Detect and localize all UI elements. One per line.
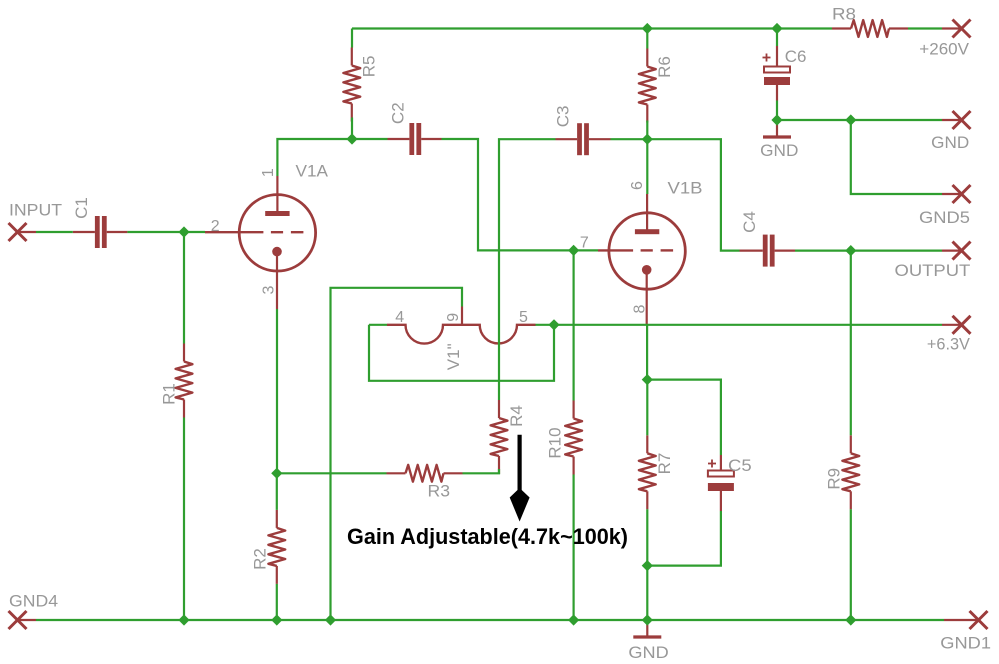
wire C6 bottom to GND node (776, 101, 778, 121)
port GND1 (970, 611, 988, 629)
svg-text:+6.3V: +6.3V (927, 334, 971, 353)
junction node C6/GND (771, 114, 782, 125)
resistor R3 (387, 465, 463, 482)
svg-text:GND4: GND4 (9, 591, 58, 610)
wire C5 bottom to R7 bottom node (647, 511, 721, 566)
capacitor C1 (95, 216, 107, 248)
junction node GND/GND5 (845, 114, 856, 125)
junction node top bus R6 (642, 23, 653, 34)
wire C2 to V1B grid node (442, 139, 574, 250)
capacitor C2 (409, 123, 421, 155)
wire R7 node over to C5 (647, 380, 721, 455)
svg-text:R3: R3 (428, 482, 451, 501)
port GND4 (9, 611, 27, 629)
svg-text:V1B: V1B (668, 179, 703, 198)
capacitor C4 (763, 235, 775, 267)
capacitor C6 (764, 46, 790, 101)
svg-text:R8: R8 (832, 5, 856, 24)
resistor R5 (343, 48, 360, 122)
svg-text:8: 8 (632, 304, 649, 313)
svg-text:GND: GND (931, 133, 969, 152)
svg-text:INPUT: INPUT (9, 200, 62, 219)
wire C3 right to anode node (611, 138, 648, 140)
svg-text:R9: R9 (825, 468, 844, 490)
svg-text:R1: R1 (160, 383, 179, 405)
wire GND node down to GND5 (851, 120, 942, 194)
wire pin 8 down to R7 node (646, 324, 648, 380)
wire C3 left down to R4 (499, 139, 556, 400)
port +260V (953, 20, 971, 38)
junction node bus R1 (178, 614, 189, 625)
junction node bus heater (325, 614, 336, 625)
wire +260V after R8 (908, 27, 942, 29)
wire R9 to bottom bus (850, 509, 852, 620)
port INPUT (9, 223, 27, 241)
wire anode node to C4 (647, 139, 739, 250)
capacitor C5 plus sign (708, 460, 716, 468)
junction node R7/C5 bottom (642, 560, 653, 571)
svg-text:R4: R4 (507, 405, 526, 427)
wire grid node down to R10 (572, 250, 574, 400)
wire R5 bottom to node (351, 118, 353, 140)
svg-text:6: 6 (629, 181, 646, 190)
svg-text:GND: GND (760, 141, 798, 160)
svg-text:V1": V1" (444, 343, 463, 370)
resistor R2 (268, 510, 285, 584)
wire OUTPUT node down to R9 (850, 251, 852, 436)
svg-text:C3: C3 (554, 106, 573, 128)
svg-text:R2: R2 (251, 548, 270, 570)
triode V1A (205, 176, 316, 309)
wire heater pin 4 link (369, 324, 387, 326)
svg-text:1: 1 (260, 168, 277, 177)
wire V1A cathode down (276, 309, 278, 473)
svg-text:GND5: GND5 (919, 208, 970, 227)
svg-text:Gain Adjustable(4.7k~100k): Gain Adjustable(4.7k~100k) (347, 524, 628, 549)
svg-text:2: 2 (211, 218, 220, 235)
svg-text:C2: C2 (389, 102, 408, 124)
svg-text:R7: R7 (655, 453, 674, 475)
wire bottom ground bus (36, 619, 944, 621)
wire heater return loop (369, 325, 554, 381)
svg-text:GND1: GND1 (940, 634, 991, 653)
wire cathode node to R2 (276, 473, 278, 510)
junction node bus R7/GND (642, 614, 653, 625)
wire R6 top link (646, 29, 648, 49)
resistor R8 (832, 20, 908, 37)
svg-text:GND: GND (628, 643, 668, 662)
resistor R9 (842, 435, 859, 509)
svg-text:7: 7 (580, 234, 589, 251)
junction node grid V1B/R10 (568, 245, 579, 256)
wire V1A anode to R5/C2 node (277, 139, 387, 176)
wire R3 to cathode node (277, 472, 387, 474)
svg-text:C4: C4 (740, 211, 759, 233)
junction node R6/C3/anode V1B (642, 134, 653, 145)
resistor R6 (639, 49, 656, 123)
ground symbol under C6 (763, 120, 791, 137)
capacitor C3 (577, 123, 589, 155)
wire R6 bottom to anode node (646, 121, 648, 140)
junction node OUTPUT/R9 (845, 245, 856, 256)
wire heater pin 5 link (536, 324, 555, 326)
resistor R4 (491, 400, 508, 474)
capacitor C5 (708, 455, 734, 511)
svg-text:OUTPUT: OUTPUT (895, 261, 971, 280)
wire C6 top link (776, 29, 778, 47)
annotation arrow (517, 435, 521, 496)
resistor R10 (565, 401, 582, 475)
svg-text:R6: R6 (655, 56, 674, 78)
svg-text:R5: R5 (360, 56, 379, 78)
ground symbol on bottom bus (633, 620, 661, 637)
wire R7 to bottom bus (646, 509, 648, 620)
svg-text:4: 4 (395, 309, 404, 326)
wire anode node to pin 6 (646, 139, 648, 194)
wire R1 to bottom bus (183, 418, 185, 621)
wire grid node to pin 7 (574, 249, 598, 251)
resistor R7 (639, 435, 656, 509)
wire R2 to bottom bus (276, 584, 278, 620)
junction node heater/+6.3V (548, 319, 559, 330)
port GND (953, 111, 971, 129)
resistor R1 (176, 344, 193, 418)
junction node input/R1 (178, 226, 189, 237)
wire +260V top bus (352, 27, 832, 29)
wire R10 to bottom bus (572, 475, 574, 621)
triode V1B (598, 194, 685, 324)
wire C1 to V1A grid (127, 231, 205, 233)
wire R4 bottom to R3 (463, 469, 500, 473)
junction node R5/C2/anode (346, 133, 357, 144)
wire GND node to GND port (777, 119, 942, 121)
port OUTPUT (953, 242, 971, 260)
svg-text:C6: C6 (785, 47, 807, 66)
wire heater node to +6.3V port (554, 324, 942, 326)
port GND5 (953, 185, 971, 203)
svg-text:5: 5 (519, 309, 528, 326)
junction node bus R9 (845, 614, 856, 625)
wire R7 node to R7 (646, 380, 648, 436)
heater V1" bumps (387, 307, 536, 344)
wire pin 9 to left rail (331, 288, 463, 620)
capacitor C6 plus sign (763, 54, 771, 62)
wire C4 to OUTPUT (795, 250, 942, 252)
svg-text:V1A: V1A (296, 162, 329, 181)
junction node bus R2 (271, 614, 282, 625)
junction node top bus C6 (771, 23, 782, 34)
wire INPUT to C1 (36, 231, 73, 233)
junction node pin8/R7/C5 (642, 374, 653, 385)
svg-text:+260V: +260V (919, 39, 969, 58)
wire R5 top link (351, 29, 353, 48)
junction node bus R10 (568, 614, 579, 625)
svg-text:R10: R10 (546, 427, 565, 458)
port +6.3V (953, 316, 971, 334)
svg-text:C5: C5 (728, 456, 752, 475)
svg-text:9: 9 (445, 313, 462, 322)
wire input node down to R1 (183, 232, 185, 344)
svg-text:C1: C1 (72, 197, 91, 219)
junction node cathode/R2/R3 (271, 468, 282, 479)
svg-text:3: 3 (260, 285, 277, 294)
